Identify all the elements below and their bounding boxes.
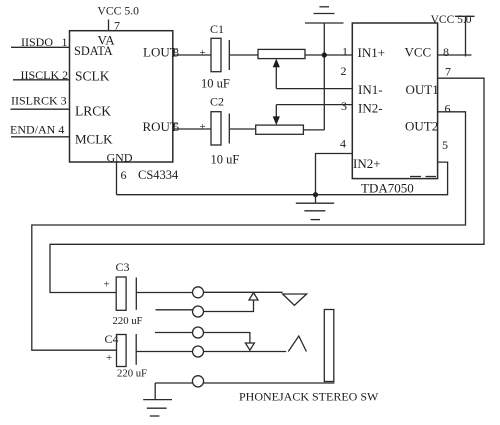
wire R1 to IN1+ — [305, 54, 352, 56]
junction dot ground/IN1+ — [322, 52, 327, 57]
svg-text:3: 3 — [341, 99, 347, 113]
wire pad3 to switch arrow — [204, 333, 250, 343]
wire pad4 to contact caret — [204, 351, 287, 353]
switch arrow up (open head) — [249, 293, 258, 300]
svg-text:IN2-: IN2- — [358, 100, 383, 115]
wire pad2 to switch arrow — [204, 300, 254, 312]
svg-text:IISDO: IISDO — [21, 35, 53, 49]
dashed mark inside chip — [410, 176, 421, 178]
wire ROUT to C2 — [173, 128, 211, 130]
wire pin2 SCLK — [13, 79, 70, 81]
svg-text:220 uF: 220 uF — [113, 315, 143, 327]
potentiometer R1 wiper arrow — [275, 67, 277, 89]
capacitor C4 body — [117, 335, 127, 367]
pin 7 VA supply wire — [108, 20, 110, 31]
connector pad 3 — [193, 327, 204, 338]
svg-text:+: + — [104, 279, 110, 291]
wire pad3 stub left — [155, 332, 193, 334]
svg-text:4: 4 — [340, 137, 346, 151]
svg-text:IISCLK 2: IISCLK 2 — [21, 68, 69, 82]
jack contact caret (up) — [288, 336, 306, 352]
svg-text:END/AN 4: END/AN 4 — [10, 123, 64, 137]
svg-text:SDATA: SDATA — [74, 44, 113, 58]
svg-text:IISLRCK 3: IISLRCK 3 — [11, 94, 67, 108]
svg-text:+: + — [200, 47, 206, 59]
connector pad 4 — [193, 346, 204, 357]
svg-text:10 uF: 10 uF — [201, 77, 230, 91]
wire pin3 LRCK — [11, 108, 70, 110]
wire C1 to R1 — [229, 54, 258, 56]
svg-text:10 uF: 10 uF — [211, 153, 240, 167]
svg-text:220 uF: 220 uF — [117, 367, 147, 379]
wire R1 wiper to IN1- — [276, 88, 352, 90]
svg-text:IN1+: IN1+ — [358, 45, 386, 60]
IC U1 CS4334 body — [70, 31, 173, 162]
svg-text:VCC 5.0: VCC 5.0 — [97, 5, 139, 18]
junction dot on ground wire — [313, 192, 318, 197]
capacitor C3 body — [116, 277, 126, 310]
wire pad1 to contact triangle — [204, 291, 283, 293]
ground G1 (above TDA7050, inverted) — [319, 6, 329, 8]
svg-text:1: 1 — [62, 35, 68, 49]
wire pin 7 OUT1 loop to C3 — [50, 78, 484, 292]
svg-text:OUT2: OUT2 — [405, 119, 438, 134]
svg-text:C2: C2 — [210, 95, 224, 109]
connector pad 2 — [193, 306, 204, 317]
potentiometer R2 wiper arrow — [275, 105, 277, 117]
potentiometer R1 body — [258, 49, 305, 58]
svg-text:+: + — [200, 121, 206, 133]
svg-text:GND: GND — [107, 151, 133, 165]
svg-text:8: 8 — [443, 45, 449, 59]
svg-text:7: 7 — [445, 64, 451, 78]
connector pad 5 — [192, 376, 203, 387]
wire C2 to R2 — [229, 128, 255, 130]
VCC power bar — [455, 15, 475, 17]
wire R2 wiper to IN2- — [276, 104, 352, 106]
wire R2 right to ground stem — [303, 129, 324, 131]
wire pad5 down to ground — [154, 383, 156, 400]
wire pad2 stub left — [156, 309, 193, 311]
switch arrow down (open head) — [245, 343, 254, 350]
svg-text:TDA7050: TDA7050 — [361, 181, 414, 196]
IC U2 TDA7050 body — [352, 23, 437, 179]
wire pin4 MCLK — [11, 136, 70, 138]
wire pin 8 — [438, 54, 472, 56]
wire LOUT to C1 — [173, 54, 211, 56]
svg-text:MCLK: MCLK — [75, 131, 113, 146]
wire pin 4 IN2+ — [316, 154, 353, 195]
svg-text:6: 6 — [445, 102, 451, 116]
ground G2 (below TDA7050) — [315, 195, 317, 204]
wire pin1 SDATA — [11, 46, 70, 48]
ground G3 (bottom) — [143, 399, 172, 401]
svg-text:+: + — [106, 352, 112, 364]
svg-text:IN1-: IN1- — [358, 82, 383, 97]
svg-text:5: 5 — [442, 138, 448, 152]
svg-text:6: 6 — [121, 168, 127, 182]
svg-text:CS4334: CS4334 — [138, 168, 179, 182]
wire pad5 sleeve — [155, 382, 193, 384]
wire pin 5 loop to CS4334 GND — [117, 162, 448, 195]
capacitor C2 body — [211, 112, 221, 145]
svg-text:OUT1: OUT1 — [406, 82, 439, 97]
svg-text:PHONEJACK STEREO SW: PHONEJACK STEREO SW — [239, 389, 379, 403]
svg-text:IN2+: IN2+ — [353, 156, 381, 171]
wire pin 6 OUT2 loop to C4 — [32, 112, 466, 350]
potentiometer R2 body — [256, 125, 304, 134]
wire VCC bar down to pin 8 — [465, 16, 467, 56]
wire ground stem down to R2 — [323, 23, 325, 130]
svg-text:SCLK: SCLK — [75, 69, 110, 84]
connector pad 1 — [193, 287, 204, 298]
wire C3 to jack tip — [136, 292, 192, 294]
svg-text:1: 1 — [342, 45, 348, 59]
pin 6 GND wire down — [116, 162, 118, 195]
svg-text:C3: C3 — [116, 260, 130, 274]
svg-text:5: 5 — [173, 120, 179, 134]
svg-text:C1: C1 — [210, 22, 224, 36]
phone jack sleeve body — [324, 310, 334, 382]
svg-text:2: 2 — [341, 64, 347, 78]
capacitor C1 body — [211, 38, 221, 71]
svg-text:LRCK: LRCK — [75, 104, 111, 119]
jack contact triangle (down) — [283, 294, 307, 305]
svg-text:7: 7 — [114, 19, 120, 33]
svg-text:8: 8 — [173, 46, 179, 60]
wire C4 to jack ring — [136, 351, 192, 353]
svg-text:VCC: VCC — [405, 45, 432, 60]
